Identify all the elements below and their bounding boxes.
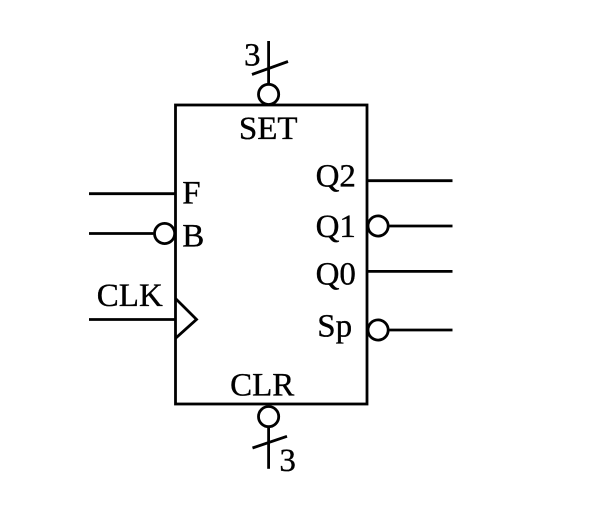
wire: Sp output: [389, 329, 452, 332]
wire: F input: [89, 192, 176, 195]
svg-text:F: F: [182, 175, 200, 211]
wire: B input: [89, 232, 153, 235]
inversion bubble: Sp: [368, 320, 388, 340]
wire: Q0 output: [367, 270, 453, 273]
clock edge triangle: [176, 299, 197, 339]
wire: CLK input: [89, 318, 176, 321]
svg-text:CLK: CLK: [97, 278, 163, 314]
inversion bubble: Q1: [368, 216, 388, 236]
inversion bubble: CLR: [259, 407, 279, 427]
inversion bubble: B: [155, 223, 175, 243]
wire: Q1 output: [389, 225, 452, 228]
component box U1: [176, 105, 368, 404]
svg-text:Q2: Q2: [316, 159, 356, 195]
svg-text:3: 3: [244, 38, 261, 74]
wire: SET bus (top vertical): [267, 41, 270, 84]
bus-width slash (bottom): [253, 436, 288, 448]
svg-text:Sp: Sp: [317, 309, 352, 345]
svg-text:CLR: CLR: [230, 367, 294, 403]
svg-text:3: 3: [279, 443, 296, 479]
svg-text:Q1: Q1: [316, 209, 356, 245]
inversion bubble: SET: [259, 84, 279, 104]
svg-text:Q0: Q0: [316, 257, 356, 293]
wire: CLR bus (bottom vertical): [267, 427, 270, 469]
wire: Q2 output: [367, 179, 453, 182]
svg-text:SET: SET: [239, 111, 298, 147]
bus-width slash (top): [252, 62, 288, 75]
svg-text:B: B: [182, 219, 204, 255]
